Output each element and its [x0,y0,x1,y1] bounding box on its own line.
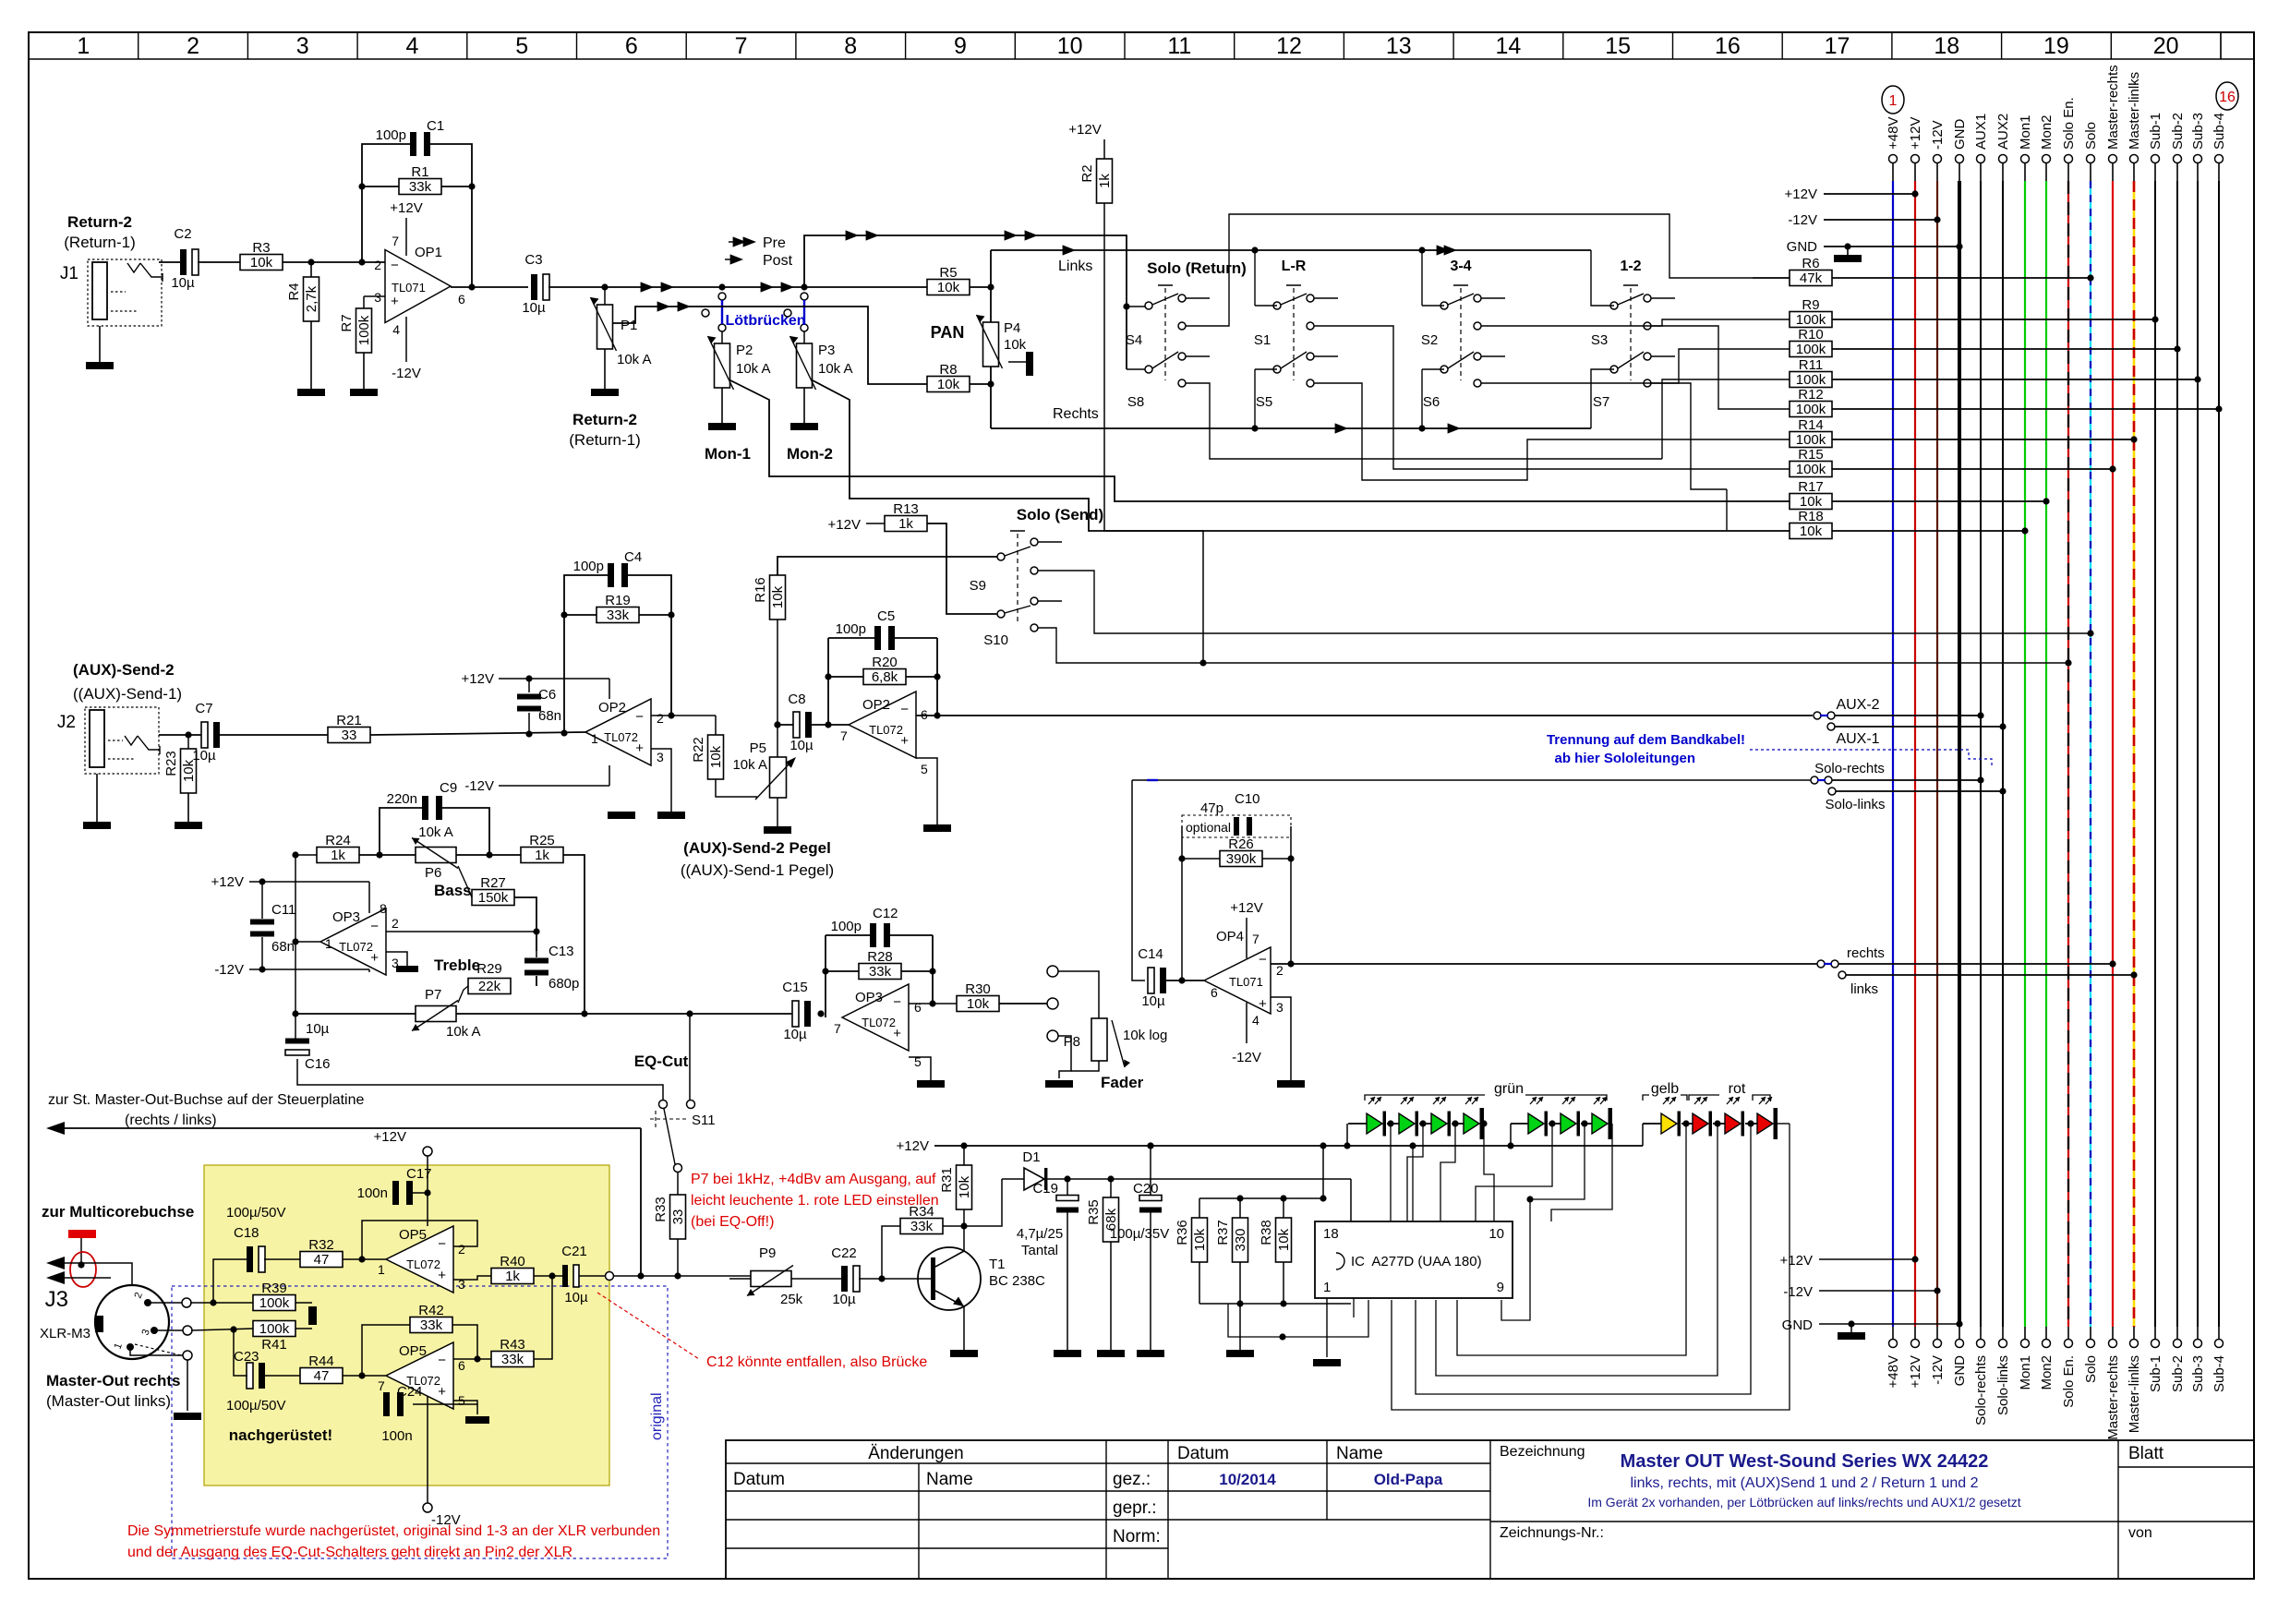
LED green 3 [1431,1113,1447,1134]
svg-text:10k: 10k [937,377,960,392]
sheet reference circle 16 [2216,82,2238,110]
solo send wire to Solo bus [1038,571,2091,633]
svg-text:PAN: PAN [931,323,965,342]
svg-text:R20: R20 [872,655,898,670]
svg-text:R21: R21 [336,713,362,728]
svg-text:+: + [438,1384,446,1400]
svg-text:Solo (Return): Solo (Return) [1147,259,1247,277]
svg-text:47: 47 [314,1252,330,1268]
svg-text:3-4: 3-4 [1450,259,1471,274]
svg-text:P9: P9 [759,1245,776,1261]
svg-text:R39: R39 [261,1281,287,1296]
svg-text:R18: R18 [1798,509,1824,524]
capacitor C22 [791,1278,842,1280]
resistor R3 [240,255,283,271]
svg-text:100k: 100k [1796,342,1826,357]
svg-text:Mon2: Mon2 [2039,114,2055,150]
potentiometer P9 [729,1278,751,1280]
resistor R10 [1790,342,1832,357]
resistor R33 [670,1195,686,1239]
svg-text:Solo-links: Solo-links [1825,797,1885,812]
wire R2 down to solo enable rail [1104,203,1203,663]
svg-text:10k: 10k [1004,337,1027,353]
capacitor C6 [517,694,541,700]
svg-text:R14: R14 [1798,417,1824,433]
svg-text:+: + [370,950,379,966]
capacitor C11 [250,920,274,925]
wire solo line to C14 [1132,780,1145,980]
svg-text:+12V: +12V [1908,1355,1923,1388]
svg-text:1: 1 [325,936,332,951]
resistor R9 [1790,312,1832,328]
svg-text:+48V: +48V [1886,1355,1901,1388]
svg-text:C16: C16 [305,1056,331,1072]
svg-text:(AUX)-Send-2: (AUX)-Send-2 [73,661,175,679]
solder jumper Loetbruecke 1 [718,293,726,300]
svg-text:68n: 68n [538,708,561,724]
svg-text:(Master-Out links): (Master-Out links) [46,1392,171,1410]
svg-text:(rechts / links): (rechts / links) [125,1113,217,1128]
wire R13 to S10 [927,523,997,614]
svg-text:IC: IC [1351,1254,1365,1269]
wire R3 to OP1 [283,261,385,263]
OP4 pin3 ground [1271,997,1291,1080]
svg-text:C10: C10 [1235,791,1260,807]
svg-text:S2: S2 [1421,332,1438,348]
svg-text:390k: 390k [1226,851,1257,867]
svg-text:100µ/35V: 100µ/35V [1110,1226,1170,1242]
svg-text:R13: R13 [893,501,919,517]
capacitor C13 [524,958,548,964]
svg-text:R8: R8 [939,362,957,378]
svg-text:6: 6 [458,1358,465,1373]
+12V risers to LEDs [1346,1124,1348,1146]
svg-text:Die Symmetrierstufe wurde nach: Die Symmetrierstufe wurde nachgerüstet, … [127,1523,660,1539]
feedback capacitor C5 [874,626,881,650]
wire C14 to OP4 [1165,980,1204,981]
svg-text:Sub-2: Sub-2 [2170,113,2186,150]
IC pin 1 ground [1326,1298,1328,1357]
wire C13 down to R29 [536,976,537,986]
OP3b output wire [909,1003,957,1004]
svg-text:33k: 33k [501,1352,524,1367]
svg-text:Sub-4: Sub-4 [2212,113,2227,150]
svg-text:Mon-1: Mon-1 [705,445,751,463]
svg-text:R4: R4 [286,283,302,300]
fader connector pads [1047,966,1058,977]
svg-text:10k: 10k [1276,1228,1292,1251]
bus line Master-rechts [2109,155,2117,163]
svg-text:P5: P5 [750,740,766,756]
ground at GND feed [1847,247,1849,255]
svg-text:10k: 10k [1192,1228,1208,1251]
svg-text:P7: P7 [425,987,441,1003]
OP2a power stubs [609,679,610,699]
svg-text:10k: 10k [937,280,960,295]
XLR dashed link [135,1344,181,1355]
svg-text:47k: 47k [1800,271,1823,286]
IC bottom left wire [1228,1300,1368,1337]
connector J2 AUX-Send jack [85,707,159,774]
svg-text:S4: S4 [1126,332,1142,348]
svg-text:C12: C12 [873,906,898,921]
svg-text:P6: P6 [425,865,441,881]
OP5a feedback loop [362,1221,477,1259]
svg-text:P4: P4 [1004,320,1020,336]
T1 emitter to ground [963,1306,965,1350]
svg-text:+12V: +12V [897,1138,929,1154]
resistor R26 [1220,851,1262,867]
svg-text:OP3: OP3 [332,909,360,925]
resistor R21 [328,728,370,743]
bus line Master-linlks [2130,155,2139,163]
svg-text:−: − [900,702,909,717]
svg-text:+12V: +12V [1780,1253,1813,1269]
wire R8 right [970,383,991,385]
svg-text:68n: 68n [271,939,295,955]
LED green 2 [1399,1113,1415,1134]
svg-text:(Return-1): (Return-1) [64,234,135,251]
svg-text:-12V: -12V [214,962,244,978]
svg-text:links: links [1850,981,1878,997]
svg-text:R31: R31 [939,1167,955,1193]
OP5b pin5 wire [413,1401,477,1404]
feedback loop wires OP2a [564,575,608,733]
svg-text:C7: C7 [195,701,212,716]
LED return loops to IC bottom [1392,1124,1790,1410]
bus line +48V [1889,155,1898,163]
svg-text:22k: 22k [478,979,501,994]
capacitor C2 [180,249,187,275]
OP4 feedback wires [1181,826,1183,980]
lower distribution wire [1254,369,1256,428]
svg-text:P3: P3 [818,343,835,358]
svg-text:Datum: Datum [733,1470,785,1489]
svg-text:100k: 100k [259,1321,290,1337]
wires above R37 R38 [1199,1197,1323,1199]
wire R27 to C13 [514,897,536,951]
svg-text:10: 10 [1488,1226,1504,1242]
solo enable wire to Solo En bus [1038,628,2068,663]
svg-text:Bezeichnung: Bezeichnung [1500,1444,1585,1460]
svg-text:-12V: -12V [1788,212,1817,228]
svg-text:+12V: +12V [390,200,422,216]
OP5a pin3 wire [453,1276,491,1280]
svg-text:1k: 1k [505,1269,520,1284]
svg-text:1: 1 [1889,93,1898,109]
feedback resistor R19 [597,607,639,623]
resistor R24 [317,848,359,863]
svg-text:100k: 100k [1796,312,1826,328]
svg-text:7: 7 [834,1021,841,1036]
svg-text:10k A: 10k A [446,1024,481,1040]
resistor R34 [900,1219,943,1234]
svg-text:100k: 100k [1796,462,1826,477]
op-amp OP5a [386,1226,453,1293]
+12V terminal yellow box [423,1147,432,1156]
svg-text:TL071: TL071 [1229,975,1263,989]
svg-text:Master-linlks: Master-linlks [2127,72,2142,150]
svg-text:Datum: Datum [1177,1444,1229,1463]
wire R11 to bus [1832,379,2198,380]
LED cathode tail wire [1778,1123,1790,1125]
svg-text:+48V: +48V [1886,117,1901,150]
resistor R4 [310,262,312,277]
svg-text:S7: S7 [1593,394,1609,410]
svg-text:10µ: 10µ [832,1292,856,1307]
svg-text:1k: 1k [898,516,913,532]
svg-text:R29: R29 [476,961,502,977]
EQ bottom row wire [295,1013,416,1015]
svg-text:100p: 100p [376,127,406,143]
svg-text:C15: C15 [782,980,808,995]
svg-text:19: 19 [2043,33,2069,59]
svg-text:+12V: +12V [462,671,494,687]
svg-text:680p: 680p [548,976,579,992]
Treble pot P7 [416,1006,456,1022]
bus line Mon1 [2021,155,2030,163]
ground below P1 [604,349,606,389]
svg-text:Treble: Treble [434,956,480,974]
top ruler strip [29,58,2254,60]
LED meter routing wires [1390,1124,1392,1221]
svg-text:J2: J2 [57,713,76,732]
svg-text:S11: S11 [692,1113,716,1128]
svg-text:100µ/50V: 100µ/50V [226,1205,286,1221]
resistor R39 [253,1295,295,1311]
wire J1 to C2 [159,261,181,263]
switch output staircase wires [1186,214,1753,326]
feed wire to second green group [1510,1124,1512,1146]
svg-text:R43: R43 [500,1337,525,1353]
op-amp OP2a [585,699,651,765]
svg-text:OP2: OP2 [598,700,626,716]
svg-text:Sub-2: Sub-2 [2170,1355,2186,1392]
svg-text:rechts: rechts [1847,945,1885,961]
T1 collector wire [963,1248,965,1252]
capacitor C3 [531,274,537,300]
capacitor C8 [793,712,800,738]
multicore arrows [46,1257,65,1269]
wire R10 to bus [1832,348,2177,350]
svg-text:(Return-1): (Return-1) [569,431,640,449]
wire D1 anode [966,1179,1002,1226]
svg-text:Solo: Solo [2083,122,2099,150]
wire P6 wiper to R27 [458,866,472,897]
svg-text:10µ: 10µ [306,1021,330,1037]
svg-text:S5: S5 [1256,394,1272,410]
OP2a pin3 wire to ground [651,749,671,812]
wire R6 left [1753,277,1790,279]
wire C13 top to OP3a pin2 [536,932,537,957]
svg-text:6: 6 [625,33,638,59]
svg-text:100n: 100n [357,1185,388,1201]
svg-text:18: 18 [1323,1226,1339,1242]
svg-text:7: 7 [1252,932,1259,946]
op-amp OP1 [385,250,451,323]
svg-text:10µ: 10µ [522,300,546,316]
svg-text:47p: 47p [1200,800,1223,816]
svg-text:R22: R22 [691,737,706,763]
svg-text:5: 5 [515,33,528,59]
switch S4 S8 Solo Return bank [1158,284,1173,286]
svg-text:R12: R12 [1798,387,1824,403]
feedback resistor R28 [859,964,901,980]
wire R43 up to output node [534,1276,552,1359]
svg-text:Lötbrücken: Lötbrücken [725,313,805,329]
svg-text:R37: R37 [1215,1220,1231,1245]
OP3a pin2 wire [386,931,536,932]
svg-text:Solo En.: Solo En. [2061,1355,2077,1408]
svg-text:7: 7 [735,33,748,59]
wires below R36 R37 R38 [1199,1262,1200,1304]
OP4 -12V [1246,1003,1247,1043]
ground below J1 [99,326,101,362]
svg-text:Zeichnungs-Nr.:: Zeichnungs-Nr.: [1500,1525,1604,1541]
svg-text:R30: R30 [965,981,991,997]
LED green 1 [1367,1113,1382,1134]
resistor R14 [1790,432,1832,448]
vertical junction wire x1073 [990,250,992,322]
OP2b output wire AUX-2 run [916,715,1813,716]
output node pad [579,1275,605,1277]
XLR pin wires to pads [148,1302,182,1304]
ground below P5 [777,798,778,826]
svg-text:100p: 100p [573,559,604,574]
potentiometer P3 [803,331,805,343]
svg-text:C1: C1 [427,118,444,134]
svg-text:-12V: -12V [392,366,421,381]
ground below R37 [1226,1350,1254,1357]
svg-text:R10: R10 [1798,327,1824,343]
svg-text:Trennung auf dem Bandkabel!: Trennung auf dem Bandkabel! [1547,732,1745,748]
resistor R17 [1790,494,1832,510]
svg-text:100n: 100n [381,1428,412,1444]
svg-text:8: 8 [844,33,857,59]
svg-text:4: 4 [1252,1013,1259,1028]
svg-text:Solo-rechts: Solo-rechts [1814,761,1885,776]
wire R16 top to S9 [777,557,997,575]
op-amp OP4 [1204,947,1271,1014]
svg-text:S9: S9 [970,578,986,594]
svg-text:-12V: -12V [464,778,494,794]
svg-text:10k: 10k [250,255,273,271]
svg-text:C19: C19 [1032,1181,1058,1197]
bus line Solo [2087,155,2095,163]
svg-text:+: + [893,1026,901,1041]
svg-text:33k: 33k [910,1219,934,1234]
wire S4 lower moving contact [1127,368,1145,370]
svg-text:−: − [438,1353,446,1368]
wire R22 to P5 wiper [716,779,757,797]
resistor R37 [1233,1218,1248,1262]
svg-text:10µ: 10µ [192,748,216,764]
yellow highlight box [204,1165,609,1486]
svg-text:P7 bei 1kHz, +4dBv am Ausgang,: P7 bei 1kHz, +4dBv am Ausgang, auf [691,1172,936,1187]
svg-text:R38: R38 [1259,1220,1274,1245]
ground OP2a pin3 [657,812,685,819]
svg-text:7: 7 [392,234,399,248]
svg-text:10µ: 10µ [783,1027,807,1042]
resistor R22 [715,716,717,737]
ground below P3 [803,388,805,423]
ground below C19 [1067,1212,1068,1350]
svg-text:100µ/50V: 100µ/50V [226,1398,286,1413]
svg-text:4: 4 [392,322,400,337]
svg-text:R2: R2 [1079,164,1095,182]
svg-text:3: 3 [374,290,381,305]
svg-text:R1: R1 [411,164,428,180]
svg-text:AUX1: AUX1 [1973,114,1989,150]
op-amp OP3b [842,984,909,1051]
capacitor C14 [1148,968,1154,993]
svg-text:Solo-rechts: Solo-rechts [1973,1355,1989,1426]
svg-text:C13: C13 [548,944,574,959]
resistor R41 [253,1321,295,1337]
bus line AUX2 [1999,155,2007,163]
svg-text:16: 16 [2219,90,2236,105]
ground below P2 [721,388,723,423]
wire R12 to bus [1832,408,2219,410]
svg-text:-12V: -12V [1783,1284,1813,1300]
Pre wire to solo pickup [804,235,1127,369]
svg-text:grün: grün [1494,1081,1524,1097]
potentiometer P1 [604,287,606,305]
svg-text:5: 5 [921,762,928,776]
Pre Post legend [729,241,753,243]
ground below R35 [1110,1242,1112,1350]
wire P1 wiper to wire B [613,307,711,323]
svg-text:OP4: OP4 [1216,929,1244,944]
svg-text:33k: 33k [607,607,630,623]
transistor T1 [918,1247,981,1310]
upper distribution wire [1254,250,1256,306]
bus line Sub-3 [2194,155,2202,163]
svg-text:R11: R11 [1799,357,1823,373]
wire R9 to bus [1832,319,2155,320]
pad circles XLR [182,1298,191,1307]
svg-text:100p: 100p [836,621,866,637]
wire OP1 output to C3 [451,286,528,288]
svg-text:zur Multicorebuchse: zur Multicorebuchse [42,1203,194,1221]
svg-text:Sub-1: Sub-1 [2148,1355,2163,1392]
svg-text:220n: 220n [387,791,417,807]
blue dashed region original [172,1286,668,1558]
svg-text:GND: GND [1952,119,1968,150]
bus line -12V [1934,155,1942,163]
resistor R31 [957,1165,972,1209]
svg-text:(AUX)-Send-2 Pegel: (AUX)-Send-2 Pegel [683,839,831,857]
svg-text:3: 3 [1276,1000,1284,1015]
svg-text:Solo: Solo [2083,1355,2099,1383]
svg-text:100k: 100k [356,315,372,345]
svg-text:Master-Out rechts: Master-Out rechts [46,1372,180,1389]
bus line GND [1956,155,1964,163]
svg-text:Return-2: Return-2 [67,213,132,231]
resistor R32 [300,1252,343,1268]
svg-text:C21: C21 [561,1244,587,1259]
svg-text:+12V: +12V [828,517,861,533]
vertical EQ bus x320 [295,855,296,1041]
switch S11 EQ-Cut [659,1101,668,1109]
svg-text:10µ: 10µ [1141,993,1165,1009]
svg-text:+12V: +12V [1785,186,1817,202]
resistor R7 [364,295,385,297]
svg-text:D1: D1 [1022,1149,1040,1165]
svg-text:8: 8 [380,901,387,916]
wire R6 to Solo bus [1832,277,2091,279]
sheet reference circle 1 [1882,86,1904,114]
